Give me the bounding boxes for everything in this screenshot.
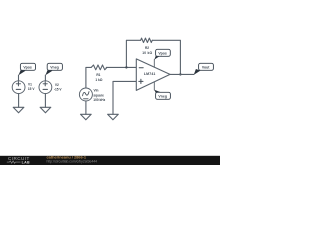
node junction at inverting input xyxy=(125,66,127,68)
svg-text:Vpos: Vpos xyxy=(158,51,167,55)
svg-text:Vneg: Vneg xyxy=(158,94,167,98)
label R1 value xyxy=(95,73,102,82)
svg-text:V2: V2 xyxy=(55,83,59,87)
svg-text:square: square xyxy=(93,94,104,98)
wire R2 to output vertical xyxy=(152,40,180,74)
wire Vin bottom xyxy=(85,101,87,114)
svg-text:LM741: LM741 xyxy=(144,72,156,76)
voltage source V2 xyxy=(39,81,52,94)
ground (noninverting input) xyxy=(108,114,119,120)
resistor R2 xyxy=(141,38,153,42)
ground (V1) xyxy=(13,107,24,113)
svg-text:Vneg: Vneg xyxy=(50,65,59,69)
flag Vpos (op-amp V+) xyxy=(154,49,170,59)
ground (Vin) xyxy=(81,114,92,120)
CircuitLab logo xyxy=(7,156,30,164)
resistor R1 xyxy=(91,65,107,70)
svg-text:http://circuitlab.com/c/by2at3: http://circuitlab.com/c/by2at3e444 xyxy=(47,159,98,163)
svg-text:1 kΩ: 1 kΩ xyxy=(95,78,102,82)
svg-text:Vin: Vin xyxy=(94,89,99,93)
watermark bar xyxy=(0,156,220,165)
ground (V2) xyxy=(40,107,51,113)
svg-text:R2: R2 xyxy=(145,46,149,50)
svg-text:100 kHz: 100 kHz xyxy=(93,98,105,102)
wire R1 to op-amp inverting input xyxy=(106,66,136,68)
wire feedback left vertical xyxy=(126,40,140,67)
label V1 value xyxy=(28,83,35,91)
flag Vneg (op-amp V-) xyxy=(154,90,170,100)
svg-text:10 kΩ: 10 kΩ xyxy=(142,51,152,55)
wire Vin top corner to R1 xyxy=(86,67,91,88)
label op-amp part number LM741 xyxy=(144,72,156,76)
svg-text:-15 V: -15 V xyxy=(54,88,62,92)
svg-text:Vpos: Vpos xyxy=(23,65,32,69)
wire V1 bottom xyxy=(18,94,20,108)
wire op-amp noninverting input to ground corner xyxy=(113,81,136,114)
op-amp U1 LM741 xyxy=(136,59,170,91)
svg-text:R1: R1 xyxy=(96,73,100,77)
svg-text:LAB: LAB xyxy=(22,160,30,164)
wire V2 top xyxy=(44,75,46,81)
flag Vout (output) xyxy=(194,63,214,75)
svg-text:V1: V1 xyxy=(28,83,32,87)
wire V1 top xyxy=(18,75,20,81)
flag Vneg (V2) xyxy=(45,63,62,75)
label V2 value xyxy=(54,83,62,91)
watermark credit text xyxy=(47,155,98,164)
wire op-amp output xyxy=(170,73,194,75)
voltage source V1 xyxy=(12,81,25,94)
node junction at output xyxy=(179,73,181,75)
flag Vpos (V1) xyxy=(19,63,36,75)
voltage source Vin (square wave) xyxy=(79,88,92,101)
label R2 value xyxy=(142,46,152,55)
wire V2 bottom xyxy=(44,94,46,108)
label Vin value xyxy=(93,89,105,103)
svg-text:15 V: 15 V xyxy=(28,87,35,91)
svg-text:Vout: Vout xyxy=(202,65,210,69)
